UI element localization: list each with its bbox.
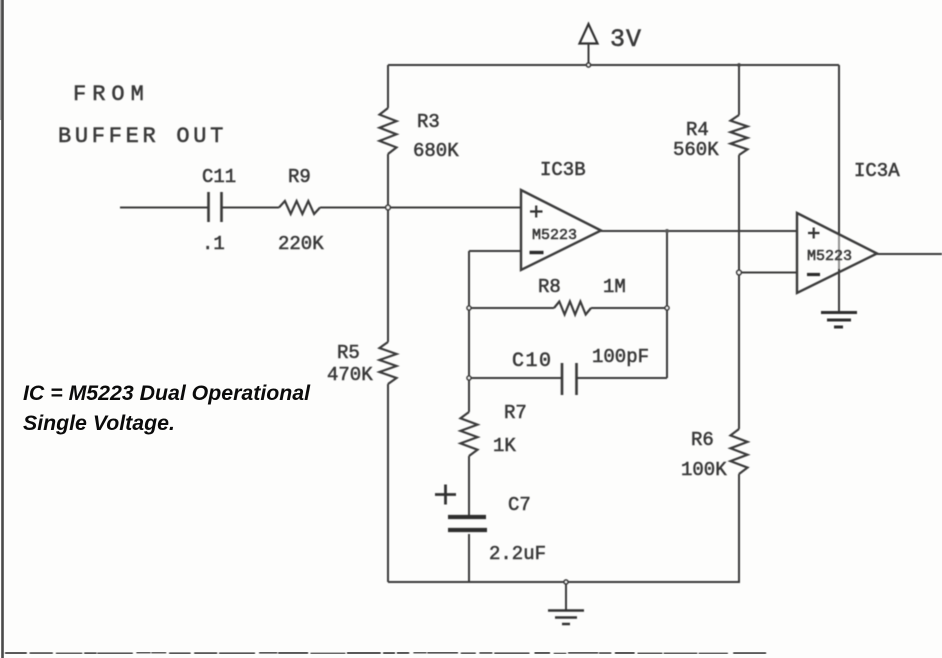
node: IC3B output junction — [665, 229, 669, 233]
svg-text:BUFFER OUT: BUFFER OUT — [58, 124, 227, 149]
C7 polarity plus — [435, 485, 456, 505]
wire: feedback vertical bus — [468, 251, 470, 412]
resistor R5 — [380, 342, 397, 384]
node: divider to IC3A inverting input — [737, 270, 742, 275]
svg-text:C7: C7 — [508, 494, 531, 516]
op-amp U IC3A triangle — [797, 213, 877, 293]
resistor R6 — [731, 429, 748, 474]
IC3B plus input mark — [530, 206, 543, 218]
wire: IC3A supply drop from rail — [838, 65, 840, 234]
IC3A minus input mark — [807, 273, 820, 276]
svg-text:R5: R5 — [337, 342, 360, 364]
resistor R7 — [461, 412, 478, 456]
svg-text:2.2uF: 2.2uF — [489, 543, 546, 565]
op-amp U IC3B triangle — [521, 190, 601, 270]
svg-text:IC3A: IC3A — [854, 160, 900, 182]
svg-text:R8: R8 — [538, 276, 561, 298]
capacitor C11 — [209, 192, 222, 222]
wire: R8 branch — [469, 307, 667, 309]
capacitor C10 — [562, 363, 577, 395]
svg-text:IC3B: IC3B — [540, 159, 586, 181]
wire: R9 to IC3B non-inverting input — [320, 207, 521, 209]
wire: 3V stem to rail — [588, 44, 590, 66]
node: R4 on rail — [737, 63, 741, 67]
IC3A plus input mark — [808, 228, 820, 239]
svg-text:R7: R7 — [504, 402, 527, 424]
wire: IC3B output down to feedback — [666, 231, 668, 378]
wire: IC3A output — [877, 253, 942, 255]
svg-text:100K: 100K — [681, 459, 727, 481]
wire: IC3B output to IC3A non-inverting input — [601, 230, 797, 232]
svg-text:M5223: M5223 — [807, 248, 852, 265]
svg-text:1M: 1M — [603, 276, 626, 298]
svg-text:470K: 470K — [327, 364, 373, 386]
wire: IC3A inverting input from divider — [739, 272, 797, 274]
resistor R3 — [380, 108, 397, 154]
node: R8 right junction — [665, 306, 669, 310]
resistor R9 — [279, 201, 320, 214]
svg-text:220K: 220K — [278, 233, 324, 255]
svg-text:.1: .1 — [202, 233, 225, 255]
svg-text:R9: R9 — [288, 166, 311, 188]
svg-text:R6: R6 — [691, 429, 714, 451]
svg-text:R3: R3 — [417, 111, 440, 133]
node: 3V stem on rail — [587, 63, 591, 67]
wire: left vertical branch R3/R5 — [387, 65, 389, 582]
capacitor C7 electrolytic — [448, 517, 487, 530]
svg-text:100pF: 100pF — [592, 346, 649, 368]
svg-text:M5223: M5223 — [532, 227, 577, 244]
wire: +3V top supply rail — [388, 64, 839, 66]
svg-text:IC = M5223 Dual Operational: IC = M5223 Dual Operational — [23, 381, 311, 405]
IC3B minus input mark — [530, 251, 544, 254]
svg-text:FROM: FROM — [73, 82, 150, 107]
svg-text:680K: 680K — [413, 140, 459, 162]
ground: IC3A — [821, 313, 857, 328]
svg-text:560K: 560K — [673, 139, 719, 161]
wire: IC3B inverting input — [469, 250, 521, 252]
resistor R4 — [731, 115, 748, 155]
svg-text:Single Voltage.: Single Voltage. — [23, 411, 175, 435]
wire: right vertical branch R4/R6 — [738, 65, 740, 582]
node: input/R3/R5 junction — [386, 205, 391, 210]
wire: bottom ground rail — [388, 581, 740, 583]
svg-text:1K: 1K — [493, 435, 516, 457]
wire: input signal from buffer out — [120, 207, 208, 209]
wire: C10 branch — [469, 377, 667, 379]
svg-text:R4: R4 — [686, 119, 709, 141]
node: R8 left junction — [467, 306, 471, 310]
svg-text:C10: C10 — [512, 350, 553, 373]
resistor R8 — [554, 302, 591, 315]
ground: main (below bottom rail) — [565, 582, 567, 610]
svg-text:C11: C11 — [202, 166, 236, 188]
wire: R7 to C7 to ground rail — [468, 456, 470, 582]
power symbol 3V triangle — [580, 24, 598, 44]
node: C10 left junction — [467, 376, 471, 380]
wire: C11 to R9 — [222, 207, 279, 209]
svg-text:3V: 3V — [610, 25, 642, 54]
node: ground stem on bottom rail — [564, 580, 568, 584]
